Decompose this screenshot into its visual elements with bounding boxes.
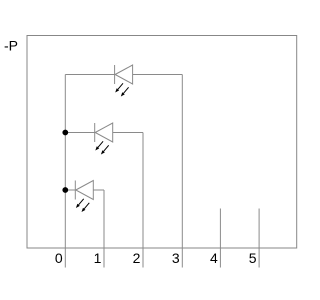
LED D2 cathode bar xyxy=(94,123,96,142)
wire: -P bus vertical (node 0 riser) xyxy=(64,75,66,268)
LED D2 light arrow 2 xyxy=(101,145,109,154)
wire: LED D2 anode-side horizontal xyxy=(65,132,94,134)
junction node on bus at LED D3 tap xyxy=(62,187,68,193)
module outline box xyxy=(27,36,297,249)
wire: LED D1 output horizontal to pin 3 xyxy=(133,74,183,76)
LED D1 light arrow 1 xyxy=(115,83,123,92)
svg-text:-P: -P xyxy=(4,38,18,54)
LED D3 light arrow 2 xyxy=(82,203,90,212)
LED D1 cathode bar xyxy=(114,65,116,84)
svg-text:2: 2 xyxy=(133,250,141,266)
wire: LED D1 anode-side horizontal xyxy=(65,74,114,76)
wire: LED D3 output horizontal to pin 1 xyxy=(93,189,104,191)
LED D3 triangle xyxy=(76,181,94,200)
wire: LED D3 anode-side horizontal xyxy=(65,189,75,191)
LED D1 light arrow 2 xyxy=(121,87,129,96)
svg-text:0: 0 xyxy=(55,250,63,266)
svg-text:4: 4 xyxy=(210,250,218,266)
wire: LED D2 output horizontal to pin 2 xyxy=(113,132,143,134)
svg-text:5: 5 xyxy=(249,250,257,266)
LED D1 triangle xyxy=(115,65,133,84)
wire: pin 2 vertical drop xyxy=(142,133,144,268)
pin 5 stub xyxy=(258,209,260,268)
LED D2 light arrow 1 xyxy=(95,141,103,150)
wire: pin 3 vertical drop xyxy=(181,75,183,268)
LED D3 light arrow 1 xyxy=(76,199,84,208)
svg-text:1: 1 xyxy=(94,250,102,266)
pin 4 stub xyxy=(219,209,221,268)
LED D3 cathode bar xyxy=(74,181,76,200)
junction node on bus at LED D2 tap xyxy=(62,130,68,136)
svg-text:3: 3 xyxy=(172,250,180,266)
wire: pin 1 vertical drop xyxy=(103,190,105,268)
LED D2 triangle xyxy=(95,123,113,142)
